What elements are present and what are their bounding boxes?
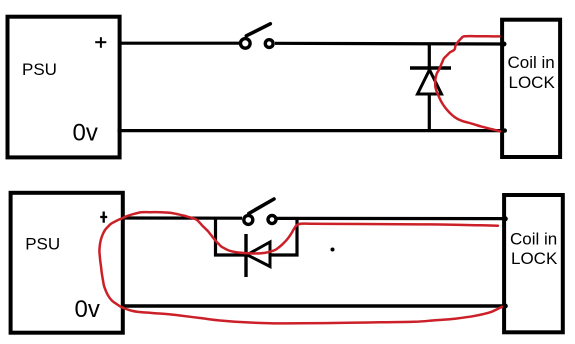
svg-text:0v: 0v xyxy=(73,120,98,147)
svg-text:Coil in: Coil in xyxy=(510,230,557,249)
svg-text:LOCK: LOCK xyxy=(509,73,556,92)
svg-text:PSU: PSU xyxy=(25,235,60,254)
svg-text:LOCK: LOCK xyxy=(511,249,558,268)
svg-text:Coil in: Coil in xyxy=(508,53,555,72)
svg-text:PSU: PSU xyxy=(22,60,57,79)
svg-text:0v: 0v xyxy=(75,296,100,323)
